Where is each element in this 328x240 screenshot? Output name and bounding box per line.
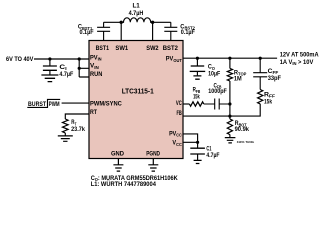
svg-text:BURST: BURST bbox=[28, 101, 46, 108]
svg-text:BST1: BST1 bbox=[96, 45, 110, 52]
svg-text:BST2: BST2 bbox=[163, 45, 179, 52]
svg-text:90.9k: 90.9k bbox=[235, 126, 250, 133]
svg-text:0.1µF: 0.1µF bbox=[181, 29, 195, 36]
svg-text:10µF: 10µF bbox=[208, 70, 220, 77]
svg-text:FB: FB bbox=[177, 110, 183, 117]
svg-text:0.1µF: 0.1µF bbox=[80, 29, 94, 36]
svg-text:VC: VC bbox=[176, 100, 182, 107]
svg-text:1A VIN > 10V: 1A VIN > 10V bbox=[280, 59, 314, 66]
svg-text:SW1: SW1 bbox=[115, 45, 128, 52]
svg-text:SW2: SW2 bbox=[146, 45, 159, 52]
svg-text:L1: L1 bbox=[133, 3, 141, 10]
svg-text:23.7k: 23.7k bbox=[71, 126, 85, 133]
svg-text:CI: CI bbox=[59, 64, 66, 71]
svg-text:4.7µF: 4.7µF bbox=[59, 71, 73, 78]
svg-text:33pF: 33pF bbox=[268, 75, 281, 82]
svg-text:15k: 15k bbox=[264, 98, 272, 105]
svg-text:LTC3115-1: LTC3115-1 bbox=[122, 86, 154, 95]
svg-text:PGND: PGND bbox=[146, 151, 160, 158]
svg-text:1M: 1M bbox=[234, 75, 242, 82]
svg-text:PWM/SYNC: PWM/SYNC bbox=[90, 101, 122, 108]
svg-text:RT: RT bbox=[90, 109, 97, 116]
svg-text:L1: WÜRTH 7447789004: L1: WÜRTH 7447789004 bbox=[91, 181, 157, 188]
svg-text:6V TO 40V: 6V TO 40V bbox=[6, 56, 34, 63]
svg-text:RUN: RUN bbox=[90, 71, 103, 78]
svg-text:4.7µF: 4.7µF bbox=[206, 152, 219, 159]
svg-text:GND: GND bbox=[111, 151, 125, 158]
svg-text:12V AT 500mA: 12V AT 500mA bbox=[280, 52, 319, 59]
svg-text:1000pF: 1000pF bbox=[208, 88, 227, 95]
svg-text:4.7µH: 4.7µH bbox=[129, 10, 144, 17]
svg-text:15k: 15k bbox=[193, 94, 200, 101]
svg-text:PWM: PWM bbox=[49, 101, 60, 108]
svg-text:31151 TA01b: 31151 TA01b bbox=[237, 140, 255, 144]
